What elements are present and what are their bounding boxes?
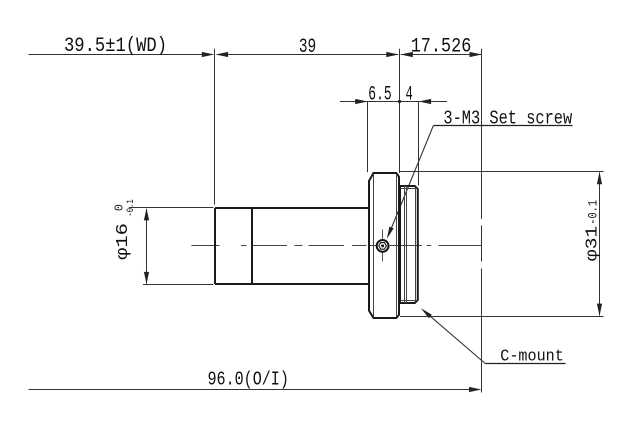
- dimension line 39: [217, 54, 398, 56]
- leader line to C-mount thread: [425, 311, 486, 363]
- extension line 4 right (x=418.5): [418, 101, 420, 186]
- svg-text:96.0(O/I): 96.0(O/I): [208, 369, 289, 391]
- centre line (dash-dot axis): [191, 245, 481, 247]
- svg-text:φ16: φ16: [114, 223, 133, 260]
- arrowhead at 6.5 left (pointing right): [355, 99, 367, 104]
- svg-text:3-M3 Set screw: 3-M3 Set screw: [443, 108, 572, 130]
- label phi31 -0.1 (rotated): [583, 200, 602, 261]
- dimension line 6.5 and 4: [340, 101, 447, 103]
- junction dot between 6.5 and 4: [398, 100, 401, 103]
- arrowhead right of 17.526: [470, 52, 482, 57]
- phi31 top extension line: [400, 171, 604, 173]
- thread minor line bottom: [401, 300, 418, 302]
- barrel outline: [215, 208, 369, 284]
- phi31 arrowhead down: [597, 304, 602, 316]
- extension line C (image plane, x=481.5): [481, 49, 483, 393]
- dimension line 17.526: [401, 54, 482, 56]
- phi16 dimension line: [146, 209, 148, 284]
- ring back chamfer line: [415, 189, 417, 300]
- phi31 arrowhead up: [597, 172, 602, 184]
- leader arrowhead at set screw: [387, 227, 394, 239]
- phi31 dimension line: [599, 173, 601, 316]
- arrowhead left of 17.526: [400, 52, 412, 57]
- svg-text:39: 39: [299, 36, 316, 59]
- extension line 6.5 left (x=367.5): [367, 101, 369, 172]
- svg-text:4: 4: [406, 84, 413, 107]
- leader line to set screw: [391, 126, 434, 231]
- set screw centre dot: [381, 244, 384, 247]
- set screw hex socket: [379, 243, 387, 250]
- label phi16 0/-0.1 (rotated): [113, 199, 137, 260]
- ring undercut lines: [404, 186, 406, 303]
- set screw crosshair: [382, 230, 384, 262]
- arrowhead right of WD dimension: [202, 52, 214, 57]
- underline of 3-M3 Set screw: [433, 125, 572, 127]
- flange front chamfer line: [373, 174, 375, 317]
- svg-text:17.526: 17.526: [411, 35, 472, 58]
- underline of C-mount: [485, 363, 565, 365]
- set screw outer circle: [377, 240, 389, 252]
- phi16 top extension line: [129, 207, 214, 209]
- svg-text:-0.1: -0.1: [585, 200, 600, 225]
- arrowhead at 4 right (pointing left): [419, 99, 431, 104]
- extension line A (lens front, x=214.5): [214, 49, 216, 205]
- barrel step line: [251, 208, 253, 284]
- extension line B (C-mount shoulder, x=399.5): [399, 49, 401, 173]
- phi16 arrowhead down: [144, 272, 149, 284]
- arrowhead right of 39: [386, 52, 398, 57]
- svg-text:39.5±1(WD): 39.5±1(WD): [64, 35, 167, 58]
- phi31 bottom extension line: [400, 316, 604, 318]
- dimension line 39.5±1(WD): [29, 54, 204, 56]
- svg-text:-0.1: -0.1: [125, 199, 137, 216]
- flange back chamfer line: [396, 174, 398, 317]
- dimension line 96.0(O/I): [29, 389, 471, 391]
- C-mount ring outline: [400, 186, 418, 303]
- phi16 bottom extension line: [143, 284, 213, 286]
- svg-text:φ31: φ31: [583, 226, 602, 262]
- flange outline (chamfered): [369, 173, 399, 318]
- thread minor line top: [401, 188, 418, 190]
- arrowhead right of 96.0: [469, 387, 481, 392]
- leader arrowhead at C-mount: [421, 308, 432, 318]
- arrowhead left of 39: [216, 52, 228, 57]
- svg-text:6.5: 6.5: [368, 84, 391, 107]
- phi16 arrowhead up: [144, 208, 149, 220]
